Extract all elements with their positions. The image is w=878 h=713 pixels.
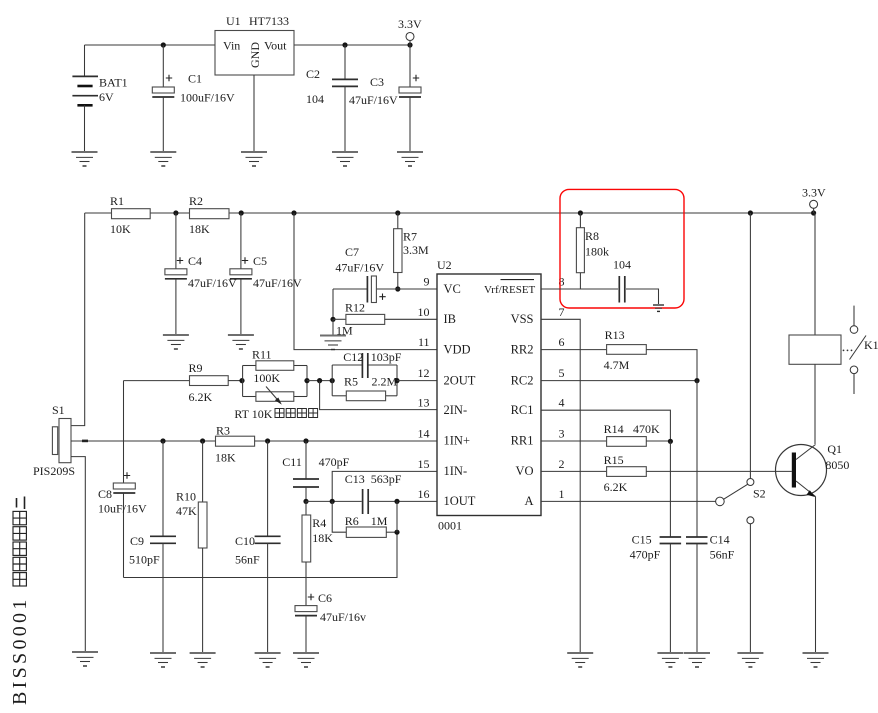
svg-text:9: 9 xyxy=(424,275,430,289)
svg-text:10: 10 xyxy=(418,305,430,319)
ground C4 xyxy=(163,335,189,349)
wire S1 output main row xyxy=(71,440,216,443)
capacitor C15 470pF xyxy=(630,441,682,653)
node C12 loop left junction xyxy=(330,378,335,383)
pin number 14 xyxy=(418,427,430,441)
pin number 11 xyxy=(418,335,430,349)
pin number 15 xyxy=(418,457,430,471)
capacitor C5 47uF/16V xyxy=(230,213,302,335)
svg-text:VSS: VSS xyxy=(511,312,534,326)
battery BAT1 xyxy=(72,45,127,152)
svg-text:18K: 18K xyxy=(189,222,210,236)
svg-text:3.3V: 3.3V xyxy=(802,186,826,200)
svg-text:12: 12 xyxy=(418,366,430,380)
resistor R13 4.7M xyxy=(541,328,697,381)
node S2 rail junction xyxy=(748,210,753,215)
resistor R8 180k xyxy=(576,213,609,289)
pin number 2 xyxy=(559,457,565,471)
pin number 1 xyxy=(559,487,565,501)
node R7/pin9 junction xyxy=(395,286,400,291)
pin number 3 xyxy=(559,427,565,441)
svg-text:R12: R12 xyxy=(345,301,365,315)
svg-text:PIS209S: PIS209S xyxy=(33,464,75,478)
wire pin 8 Vrf xyxy=(541,288,618,290)
svg-text:Vin: Vin xyxy=(223,39,240,53)
pin number 4 xyxy=(559,396,565,410)
svg-text:3.3M: 3.3M xyxy=(403,243,429,257)
svg-text:RR2: RR2 xyxy=(511,342,534,356)
svg-text:C4: C4 xyxy=(188,254,202,268)
svg-text:S2: S2 xyxy=(753,487,766,501)
node C1/Vin junction xyxy=(161,42,166,47)
capacitor C1 100uF/16V xyxy=(152,45,235,152)
node VDD drop junction xyxy=(291,210,296,215)
svg-text:0001: 0001 xyxy=(438,519,462,533)
node R11 right junction xyxy=(304,378,309,383)
wire U1 GND pin xyxy=(253,75,255,152)
svg-text:470pF: 470pF xyxy=(319,455,350,469)
pin number 6 xyxy=(559,335,565,349)
ground C15 xyxy=(657,653,683,667)
svg-text:C2: C2 xyxy=(306,67,320,81)
svg-text:470K: 470K xyxy=(633,422,660,436)
resistor R12 1M xyxy=(333,301,437,338)
wire main row right of R3 to pin 14 xyxy=(255,440,437,442)
relay K1 coil xyxy=(789,335,841,364)
wire bottom bus xyxy=(124,532,398,577)
svg-text:510pF: 510pF xyxy=(129,553,160,567)
resistor R1 10K xyxy=(110,194,150,236)
node R9/R11 left junction xyxy=(239,378,244,383)
svg-text:180k: 180k xyxy=(585,245,609,259)
svg-text:18K: 18K xyxy=(215,451,236,465)
ground small 104 xyxy=(653,305,664,311)
svg-text:6V: 6V xyxy=(99,90,114,104)
ground U1 xyxy=(241,152,267,166)
capacitor C10 56nF xyxy=(235,441,281,653)
svg-text:6: 6 xyxy=(559,335,565,349)
regulator U1 HT7133 xyxy=(215,14,294,75)
ground R10 xyxy=(190,653,216,667)
pin number 10 xyxy=(418,305,430,319)
capacitor C14 56nF xyxy=(686,381,735,653)
svg-text:6.2K: 6.2K xyxy=(189,390,213,404)
svg-text:R13: R13 xyxy=(605,328,625,342)
ground C3 xyxy=(397,152,423,166)
transistor Q1 8050 xyxy=(776,442,850,497)
node C3 junction xyxy=(407,42,412,47)
red highlight box xyxy=(560,189,684,308)
ground C6 xyxy=(293,653,319,667)
node R12 left junction xyxy=(330,317,335,322)
svg-text:RT 10K: RT 10K xyxy=(234,407,272,421)
svg-text:3.3V: 3.3V xyxy=(398,17,422,31)
svg-text:RR1: RR1 xyxy=(511,434,534,448)
resistor R7 3.3M xyxy=(394,210,429,289)
ground C14 xyxy=(684,653,710,667)
relay K1 dotted link xyxy=(843,350,853,352)
svg-text:R3: R3 xyxy=(216,424,230,438)
op-amp U2 BISS0001 chip xyxy=(437,258,541,533)
node R14 right junction xyxy=(668,439,673,444)
ground S2 xyxy=(737,653,763,667)
svg-text:2OUT: 2OUT xyxy=(444,373,476,387)
resistor R4 18K xyxy=(302,501,333,605)
svg-text:14: 14 xyxy=(418,427,430,441)
node C13 left junction xyxy=(330,499,335,504)
svg-text:104: 104 xyxy=(613,258,631,272)
resistor R10 47K xyxy=(176,441,207,653)
svg-text:IB: IB xyxy=(444,312,457,326)
capacitor C7 47uF/16V xyxy=(333,245,386,303)
node C10 junction xyxy=(265,438,270,443)
node pin13 jog junction xyxy=(317,378,322,383)
svg-text:BAT1: BAT1 xyxy=(99,76,128,90)
svg-text:47uF/16V: 47uF/16V xyxy=(349,93,398,107)
svg-text:C14: C14 xyxy=(710,533,730,547)
svg-text:1IN+: 1IN+ xyxy=(444,434,471,448)
wire pin 4 RC1 xyxy=(541,410,670,441)
wire pin 7 VSS down xyxy=(541,319,580,653)
relay K1 contact xyxy=(850,306,878,394)
node R10 junction xyxy=(200,438,205,443)
resistor R6 1M xyxy=(332,501,397,537)
pin number 13 xyxy=(418,396,430,410)
resistor R14 470K xyxy=(541,422,670,446)
label thermistor chinese xyxy=(275,409,318,418)
svg-text:R7: R7 xyxy=(403,230,417,244)
ground S1 xyxy=(72,652,98,666)
svg-text:R10: R10 xyxy=(176,490,196,504)
node 3.3V right junction xyxy=(811,210,816,215)
svg-text:R9: R9 xyxy=(189,361,203,375)
svg-text:100uF/16V: 100uF/16V xyxy=(180,91,235,105)
pin number 5 xyxy=(559,366,565,380)
svg-text:56nF: 56nF xyxy=(235,553,260,567)
svg-text:VO: VO xyxy=(515,464,533,478)
svg-text:2IN-: 2IN- xyxy=(444,403,468,417)
wire VDD drop to pin 11 xyxy=(294,213,437,350)
svg-text:GND: GND xyxy=(248,42,262,68)
svg-text:S1: S1 xyxy=(52,403,65,417)
node C12 loop right junction pin 12 xyxy=(394,378,399,383)
ground C9 xyxy=(150,653,176,667)
svg-text:R5: R5 xyxy=(344,375,358,389)
wire power rail Vout to 3.3V terminal xyxy=(294,44,410,46)
pin number 9 xyxy=(424,275,430,289)
svg-text:103pF: 103pF xyxy=(371,350,402,364)
capacitor C12 103pF parallel resistor R5 2.2M xyxy=(332,350,402,401)
ground C5 xyxy=(228,335,254,349)
svg-text:R15: R15 xyxy=(604,453,624,467)
node C11 top junction xyxy=(303,438,308,443)
wire pin 15 1IN- jog xyxy=(332,471,437,501)
svg-text:C11: C11 xyxy=(282,455,302,469)
svg-text:C12: C12 xyxy=(343,350,363,364)
svg-text:563pF: 563pF xyxy=(371,472,402,486)
svg-text:C13: C13 xyxy=(345,472,365,486)
wire pin 1 A xyxy=(541,500,716,502)
svg-text:R14: R14 xyxy=(604,422,624,436)
svg-text:HT7133: HT7133 xyxy=(249,14,289,28)
resistor R11 100K parallel thermistor RT 10K xyxy=(234,348,307,422)
svg-text:4.7M: 4.7M xyxy=(604,358,630,372)
svg-text:1OUT: 1OUT xyxy=(444,494,476,508)
svg-text:C9: C9 xyxy=(130,534,144,548)
svg-text:11: 11 xyxy=(418,335,430,349)
wire 3.3V main bus xyxy=(85,212,815,214)
ground battery xyxy=(72,152,98,166)
node R6 right junction xyxy=(394,530,399,535)
svg-text:47uF/16V: 47uF/16V xyxy=(335,261,384,275)
wire rail to relay K1 xyxy=(814,213,816,335)
node R8 top junction xyxy=(578,210,583,215)
resistor R3 18K xyxy=(215,424,255,465)
pin number 7 xyxy=(559,305,565,319)
wire left rail down to S1 xyxy=(71,213,85,426)
wire R11 to C12 loop xyxy=(307,380,332,382)
capacitor C11 470pF xyxy=(282,441,349,501)
node R13/RC2 junction xyxy=(694,378,699,383)
svg-text:R4: R4 xyxy=(312,516,326,530)
node C4 junction xyxy=(173,210,178,215)
capacitor C9 510pF xyxy=(129,441,176,653)
capacitor C13 563pF xyxy=(345,472,402,514)
svg-text:R6: R6 xyxy=(345,514,359,528)
svg-text:2: 2 xyxy=(559,457,565,471)
svg-text:K1: K1 xyxy=(864,338,878,352)
capacitor 104 on pin 8 xyxy=(613,258,659,306)
resistor R2 18K xyxy=(189,194,229,236)
svg-text:16: 16 xyxy=(418,487,430,501)
node C11/R4 pin16 junction xyxy=(303,499,308,504)
wire pin 9 VC right part xyxy=(377,288,438,290)
svg-text:47uF/16V: 47uF/16V xyxy=(188,276,237,290)
svg-text:C6: C6 xyxy=(318,591,332,605)
capacitor C3 47uF/16V xyxy=(349,45,421,152)
svg-text:15: 15 xyxy=(418,457,430,471)
svg-text:R11: R11 xyxy=(252,348,272,362)
capacitor C4 47uF/16V xyxy=(165,213,237,335)
svg-text:VC: VC xyxy=(444,282,461,296)
node C2 junction xyxy=(342,42,347,47)
wire 3.3V rail down to S2 xyxy=(749,213,751,479)
svg-text:1IN-: 1IN- xyxy=(444,464,468,478)
terminal 3.3V right xyxy=(802,186,826,214)
svg-text:RC1: RC1 xyxy=(511,403,534,417)
svg-text:18K: 18K xyxy=(312,531,333,545)
wire pin 12 2OUT xyxy=(397,380,437,382)
node C9 junction xyxy=(160,438,165,443)
svg-text:RC2: RC2 xyxy=(511,373,534,387)
svg-text:2.2M: 2.2M xyxy=(372,375,398,389)
wire top power rail from battery to Vin xyxy=(85,44,216,46)
svg-text:C3: C3 xyxy=(370,75,384,89)
pin number 16 xyxy=(418,487,430,501)
capacitor C2 104 xyxy=(306,45,358,152)
svg-text:1M: 1M xyxy=(371,514,388,528)
svg-text:10K: 10K xyxy=(110,222,131,236)
node C13 right junction xyxy=(394,499,399,532)
wire C7 corner down to R12 node xyxy=(332,289,334,319)
svg-text:5: 5 xyxy=(559,366,565,380)
svg-text:Q1: Q1 xyxy=(827,442,842,456)
svg-text:A: A xyxy=(524,494,533,508)
resistor R15 6.2K xyxy=(541,453,792,494)
svg-text:6.2K: 6.2K xyxy=(604,480,628,494)
svg-text:U1: U1 xyxy=(226,14,241,28)
svg-text:13: 13 xyxy=(418,396,430,410)
pin number 8 xyxy=(559,275,565,289)
switch S2 xyxy=(716,479,766,654)
svg-text:C15: C15 xyxy=(632,533,652,547)
svg-text:4: 4 xyxy=(559,396,565,410)
svg-text:C10: C10 xyxy=(235,534,255,548)
wire emitter down xyxy=(815,497,817,654)
svg-text:56nF: 56nF xyxy=(710,548,735,562)
svg-text:VDD: VDD xyxy=(444,342,471,356)
svg-text:Vrf/RESET: Vrf/RESET xyxy=(484,284,536,296)
svg-text:47uF/16V: 47uF/16V xyxy=(253,276,302,290)
svg-text:R1: R1 xyxy=(110,194,124,208)
svg-text:U2: U2 xyxy=(437,258,452,272)
ground C2 xyxy=(332,152,358,166)
svg-text:8050: 8050 xyxy=(825,458,849,472)
svg-text:1: 1 xyxy=(559,487,565,501)
svg-text:Vout: Vout xyxy=(264,39,287,53)
svg-text:104: 104 xyxy=(306,92,324,106)
title BISS0001 vertical xyxy=(9,497,31,706)
capacitor C6 47uF/16v xyxy=(295,591,366,653)
ground VSS xyxy=(567,653,593,667)
svg-text:C7: C7 xyxy=(345,245,359,259)
node C5 junction xyxy=(239,210,244,215)
svg-text:470pF: 470pF xyxy=(630,548,661,562)
ground C10 xyxy=(255,653,281,667)
sensor S1 PIS209S xyxy=(33,403,85,652)
svg-text:C8: C8 xyxy=(98,487,112,501)
ground Q1 emitter xyxy=(803,653,829,667)
svg-text:C5: C5 xyxy=(253,254,267,268)
svg-text:R8: R8 xyxy=(585,229,599,243)
capacitor C8 10uF/16V on R9 drop xyxy=(98,381,147,578)
svg-text:3: 3 xyxy=(559,427,565,441)
svg-text:BISS0001: BISS0001 xyxy=(9,596,31,705)
terminal 3.3V top xyxy=(398,17,422,45)
svg-text:R2: R2 xyxy=(189,194,203,208)
ground R12 node xyxy=(320,319,346,349)
svg-text:10uF/16V: 10uF/16V xyxy=(98,502,147,516)
svg-text:C1: C1 xyxy=(188,72,202,86)
svg-text:47uF/16v: 47uF/16v xyxy=(320,610,366,624)
svg-text:100K: 100K xyxy=(253,371,280,385)
wire pin 5 RC2 xyxy=(541,380,697,382)
wire pin 16 1OUT xyxy=(306,500,437,502)
svg-text:47K: 47K xyxy=(176,504,197,518)
resistor R9 6.2K xyxy=(124,361,243,404)
wire jog to pin 13 2IN- xyxy=(320,381,437,410)
ground C1 xyxy=(150,152,176,166)
wire relay to collector xyxy=(814,364,816,444)
pin number 12 xyxy=(418,366,430,380)
